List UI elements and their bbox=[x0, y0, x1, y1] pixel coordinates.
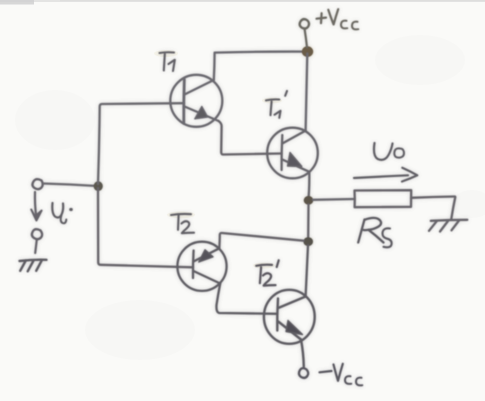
label T2' bbox=[256, 260, 279, 285]
ground (input) bbox=[20, 260, 47, 261]
label Uo bbox=[374, 143, 404, 160]
wire T2 collector to T2' base bbox=[216, 284, 277, 314]
label Ui bbox=[52, 203, 63, 218]
transistor T1' bbox=[267, 128, 318, 179]
transistor T2 bbox=[177, 242, 226, 291]
wire +Vcc node to T1' collector bbox=[306, 54, 308, 131]
wire output node to RS bbox=[313, 198, 355, 201]
+Vcc rail top wire bbox=[215, 52, 307, 53]
node A junction bbox=[94, 181, 103, 191]
wire node A to T1 base bbox=[98, 103, 184, 184]
wire +Vcc terminal to junction bbox=[305, 29, 308, 48]
wire T1 collector to +Vcc rail bbox=[213, 53, 216, 80]
wire output node to node B bbox=[307, 205, 310, 238]
paper edge smudge top bbox=[0, 0, 485, 5]
label -Vcc bbox=[320, 364, 363, 386]
label +Vcc bbox=[317, 9, 359, 29]
label T2 bbox=[171, 214, 194, 233]
transistor T1 bbox=[170, 75, 222, 127]
wire terminal to input ground bbox=[35, 240, 37, 254]
junction output node bbox=[304, 196, 314, 205]
ground (output) bbox=[429, 197, 467, 232]
wire RS to output ground bbox=[411, 197, 455, 198]
resistor RS bbox=[355, 190, 412, 207]
wire node A to T2 base bbox=[98, 188, 193, 267]
-Vcc terminal bbox=[299, 368, 308, 378]
wire T2' emitter to -Vcc terminal bbox=[301, 340, 304, 367]
wire T1 emitter to T1' base bbox=[219, 121, 282, 155]
wire T1' emitter to output node bbox=[308, 172, 311, 196]
wire input terminal to node A bbox=[44, 184, 98, 187]
label T1' bbox=[266, 91, 287, 118]
transistor T2' bbox=[264, 290, 315, 344]
label RS bbox=[358, 218, 391, 247]
arrow Ui direction bbox=[35, 192, 36, 217]
arrow Uo direction bbox=[354, 175, 408, 178]
label T1 bbox=[160, 52, 175, 71]
junction +Vcc node bbox=[302, 46, 313, 57]
input terminal Ui bbox=[32, 179, 42, 189]
input reference terminal bbox=[32, 229, 42, 239]
wire node B to T2' collector bbox=[306, 245, 308, 296]
+Vcc terminal bbox=[300, 19, 309, 28]
wire T2 emitter to node B bbox=[219, 233, 303, 248]
junction node B bbox=[303, 237, 313, 246]
